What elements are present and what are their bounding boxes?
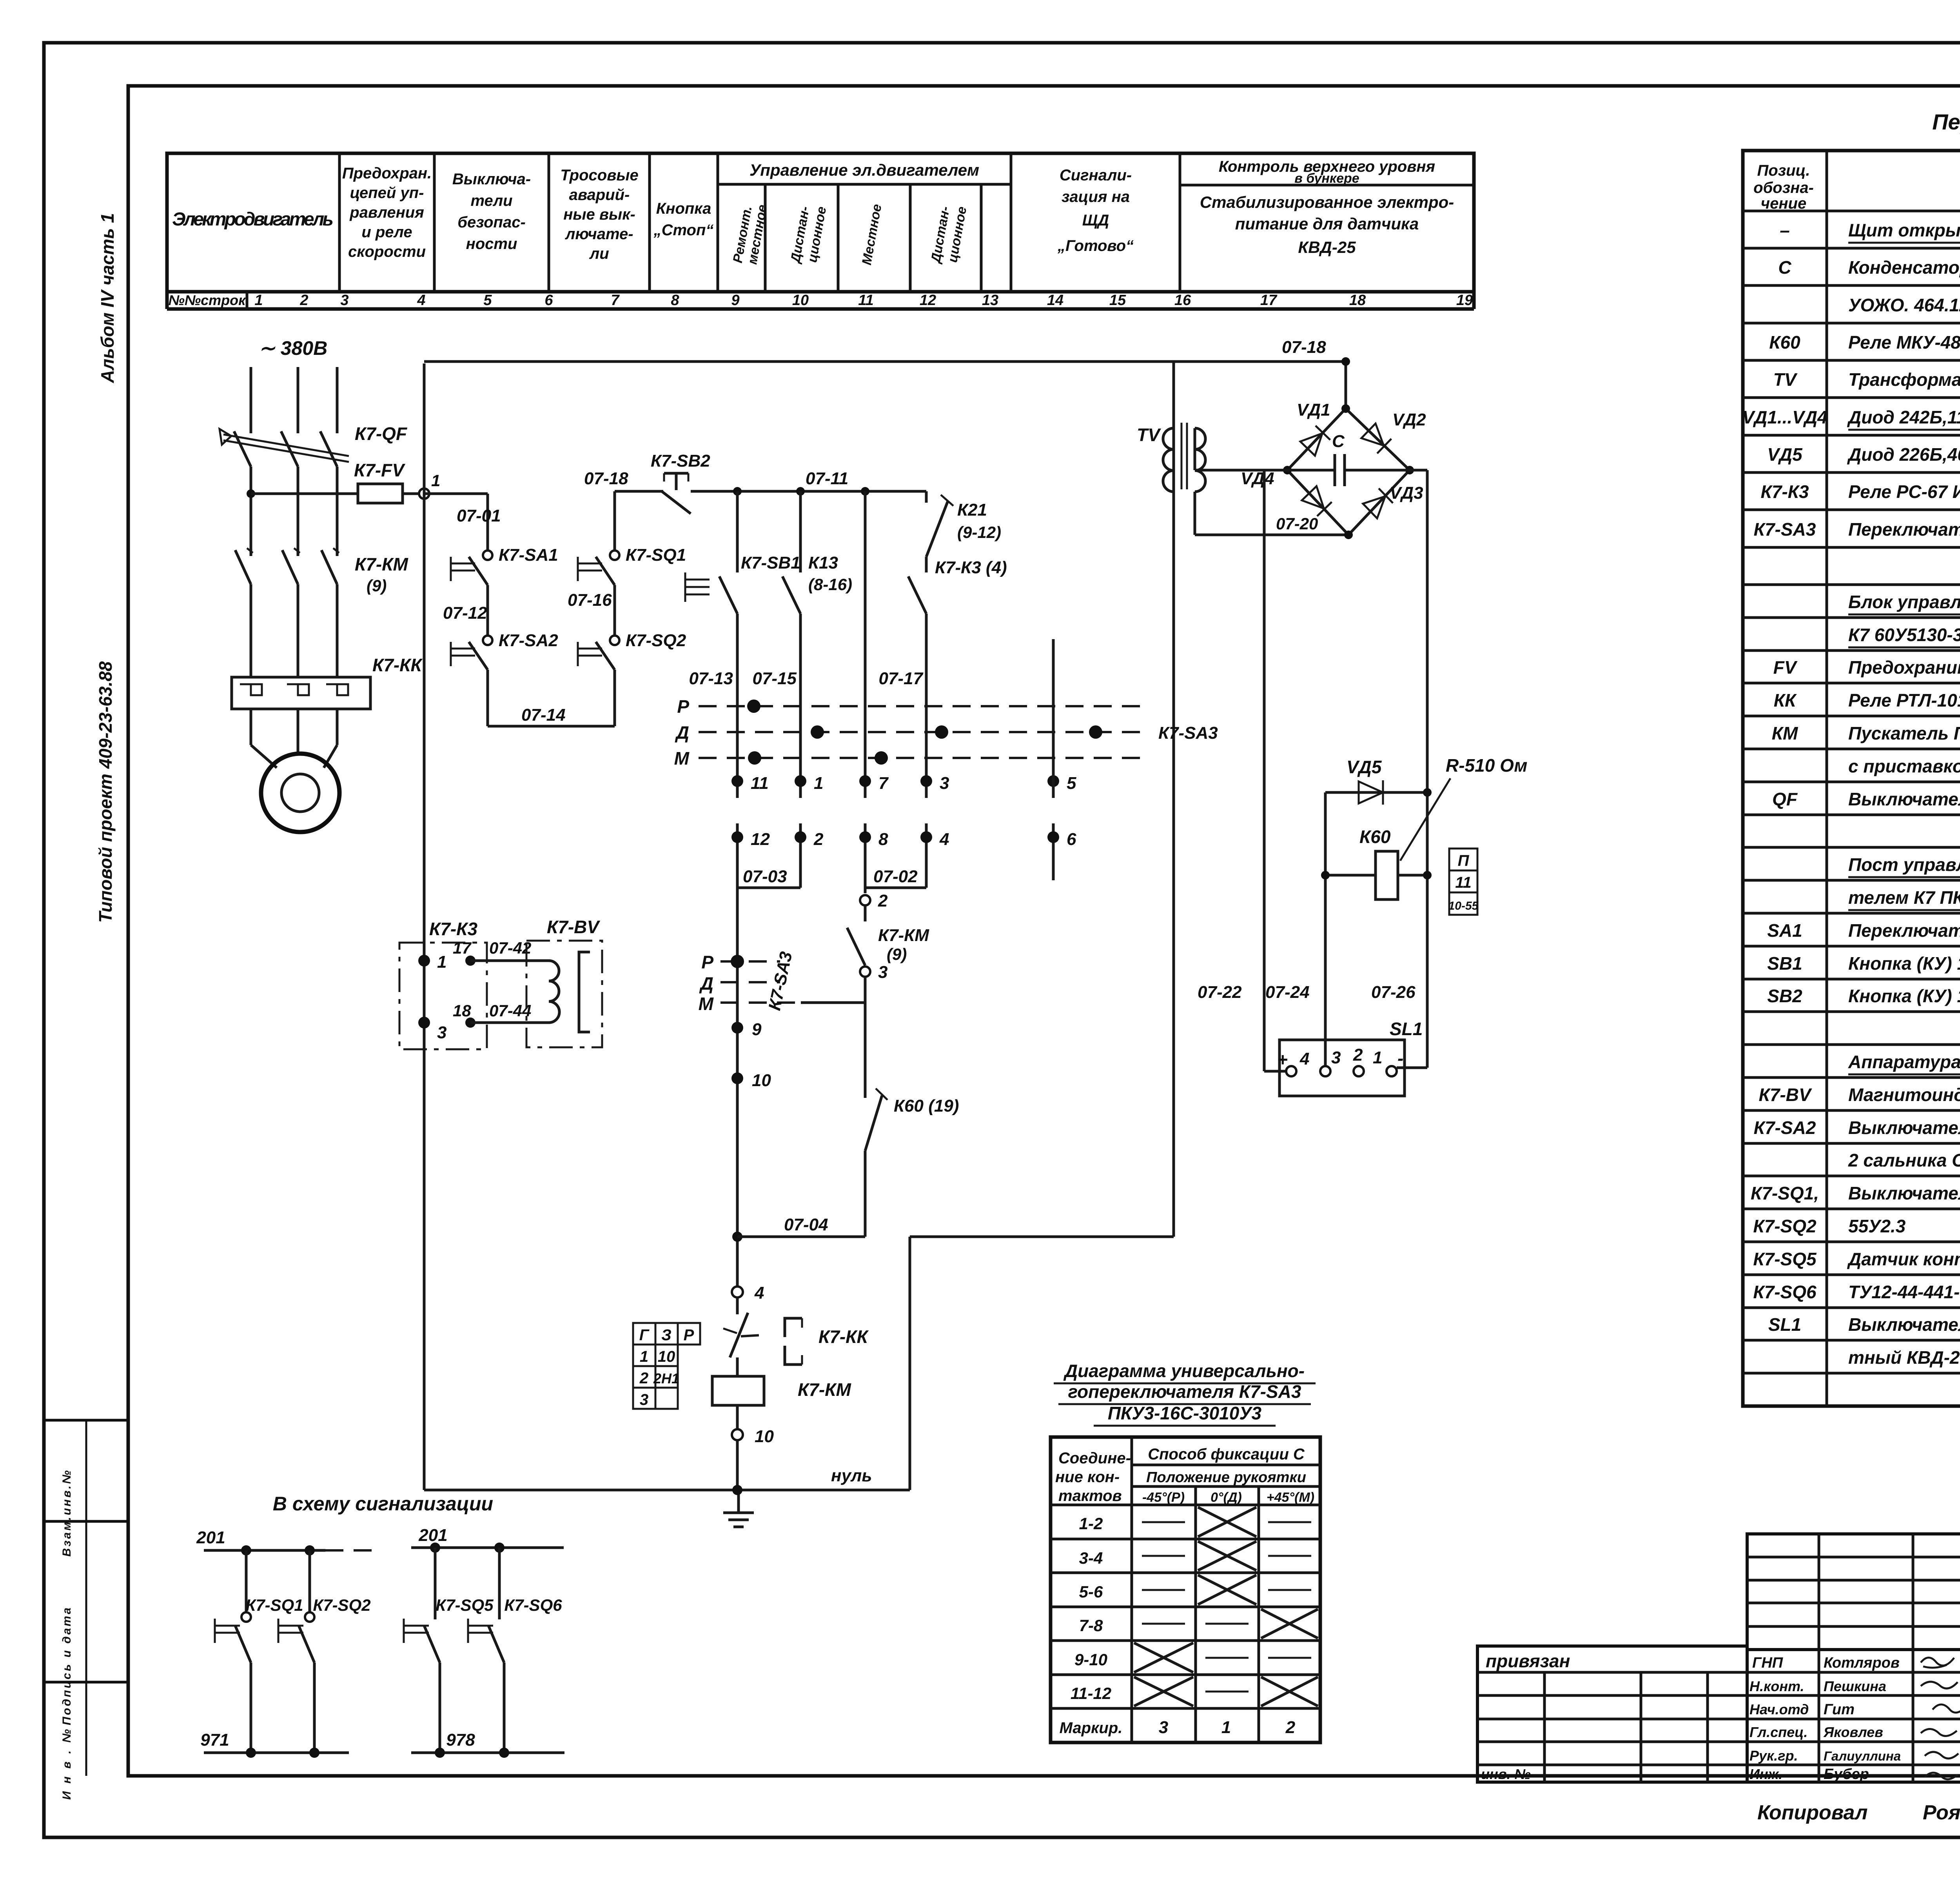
svg-text:201: 201	[418, 1526, 447, 1545]
svg-text:гопереключателя К7-SA3: гопереключателя К7-SA3	[1068, 1381, 1301, 1402]
circuit breaker K7-QF pole 3	[320, 431, 337, 467]
svg-text:Кнопка: Кнопка	[656, 200, 711, 217]
svg-text:Стабилизированное электро-: Стабилизированное электро-	[1200, 193, 1454, 211]
svg-text:07-01: 07-01	[457, 506, 501, 525]
bridge top lead	[1345, 362, 1347, 409]
svg-text:2: 2	[299, 292, 308, 309]
svg-text:К7-К3 (4): К7-К3 (4)	[935, 558, 1007, 577]
contact K21 (9-12)	[925, 491, 928, 503]
svg-text:В схему сигнализации: В схему сигнализации	[273, 1493, 493, 1515]
node 2 open	[860, 895, 870, 905]
svg-text:Диод 242Б,110В,10А ГОСТ14758-6: Диод 242Б,110В,10А ГОСТ14758-69	[1847, 407, 1960, 427]
vertical SB1 column	[736, 491, 739, 572]
svg-text:201: 201	[196, 1528, 225, 1547]
svg-text:07-24: 07-24	[1265, 983, 1310, 1002]
thermal contact K7-KK	[736, 1297, 739, 1314]
row 11-12 marks	[1134, 1677, 1193, 1706]
svg-text:Инв.№: Инв.№	[60, 1729, 73, 1800]
svg-text:07-18: 07-18	[1282, 338, 1326, 357]
svg-text:3: 3	[940, 774, 949, 793]
vertical plain column	[864, 491, 867, 798]
svg-text:Реле МКУ-48С РА4.500.232-24В,2: Реле МКУ-48С РА4.500.232-24В,2П,Rкат.510…	[1848, 332, 1960, 353]
svg-text:Кнопка (КУ) 1з+1р, черн. „пуск: Кнопка (КУ) 1з+1р, черн. „пуск“	[1848, 953, 1960, 974]
dashed М2	[720, 1001, 801, 1004]
wire SQ1 up to 07-18 line	[613, 491, 616, 551]
svg-text:-: -	[1397, 1048, 1403, 1068]
svg-text:15: 15	[1109, 292, 1126, 309]
contact K13 (8-16)	[782, 576, 800, 614]
node 3 open	[860, 967, 870, 977]
svg-text:безопас-: безопас-	[457, 214, 526, 231]
svg-text:07-22: 07-22	[1198, 983, 1242, 1002]
svg-text:К7-КМ: К7-КМ	[878, 926, 929, 945]
svg-text:К7-BV: К7-BV	[547, 917, 600, 937]
svg-text:2Н1: 2Н1	[653, 1370, 679, 1386]
right loop wire down	[1172, 362, 1175, 1237]
svg-text:К60: К60	[1769, 332, 1800, 353]
svg-text:VД1...VД4: VД1...VД4	[1742, 407, 1827, 427]
handwritten signatures (squiggles)	[1921, 1658, 1954, 1668]
svg-text:скорости: скорости	[348, 243, 426, 260]
svg-text:FV: FV	[1773, 657, 1798, 678]
header table top-left: outer box	[167, 153, 1474, 309]
svg-text:К60 (19): К60 (19)	[894, 1096, 959, 1116]
svg-text:инв. №: инв. №	[1481, 1766, 1531, 1782]
contact K7-KM (9)	[864, 906, 867, 921]
svg-text:ности: ности	[466, 235, 517, 253]
svg-text:11: 11	[751, 774, 769, 793]
svg-text:Выключатель пакетный ПВ3-10У25: Выключатель пакетный ПВ3-10У256Б	[1848, 1117, 1960, 1138]
top bus wire 07-18	[424, 360, 1346, 363]
svg-text:07-03: 07-03	[743, 867, 787, 886]
svg-text:ные вык-: ные вык-	[563, 206, 635, 223]
wire SQ2 to SQ1	[613, 585, 616, 636]
title block	[1477, 1534, 1960, 1827]
Г З Р marking table	[633, 1323, 700, 1345]
ground symbol	[737, 1490, 740, 1513]
svg-text:6: 6	[544, 292, 553, 309]
limit switch K7-SQ1	[610, 551, 619, 560]
svg-text:3: 3	[1159, 1718, 1168, 1737]
svg-text:Диаграмма универсально-: Диаграмма универсально-	[1063, 1361, 1305, 1381]
node 10	[731, 1072, 743, 1084]
svg-text:11: 11	[1455, 874, 1472, 891]
node 10 open	[732, 1429, 743, 1440]
vertical K7-K3 column	[925, 557, 928, 572]
limit switch K7-SQ2 to signal	[309, 1550, 311, 1612]
contactor K7-KM pole 3	[321, 550, 337, 584]
row 3-4 marks	[1142, 1555, 1185, 1557]
svg-text:1: 1	[640, 1348, 648, 1365]
svg-text:К7-КК: К7-КК	[818, 1326, 869, 1347]
wire 07-03	[737, 887, 800, 889]
dc rail with capacitor C	[1264, 469, 1335, 472]
svg-text:10: 10	[755, 1427, 774, 1446]
row 7-8 marks	[1142, 1623, 1185, 1625]
wire 07-11	[691, 490, 926, 493]
svg-text:телем К7 ПКУ15-19.141-54У2: телем К7 ПКУ15-19.141-54У2	[1848, 887, 1960, 908]
phase wire L1	[250, 367, 252, 433]
left dc drop wire	[1263, 470, 1266, 1071]
secondary top lead	[1194, 428, 1196, 470]
svg-text:Котляров: Котляров	[1824, 1655, 1900, 1671]
svg-text:7: 7	[611, 292, 620, 309]
svg-text:К7-К3: К7-К3	[429, 919, 477, 939]
svg-text:(9-12): (9-12)	[957, 523, 1001, 541]
svg-text:11: 11	[858, 292, 873, 309]
limit switch K7-SQ2	[610, 636, 619, 645]
svg-text:К7-SQ2: К7-SQ2	[1753, 1216, 1817, 1236]
svg-text:1: 1	[437, 952, 446, 972]
svg-text:3: 3	[340, 292, 348, 309]
svg-text:аварий-: аварий-	[569, 186, 630, 204]
svg-text:R-510 Ом: R-510 Ом	[1446, 755, 1527, 776]
loop jog wire	[910, 1236, 1174, 1238]
diode bridge edges	[1287, 409, 1346, 470]
svg-text:2: 2	[813, 830, 824, 849]
svg-text:зация на: зация на	[1062, 188, 1130, 205]
svg-text:УОЖО. 464.120ТУ: УОЖО. 464.120ТУ	[1848, 295, 1960, 315]
svg-text:9: 9	[752, 1020, 762, 1039]
svg-text:Реле РС-67 И~220В комплект дат: Реле РС-67 И~220В комплект датчик ДМ-2	[1848, 482, 1960, 502]
svg-text:1: 1	[814, 774, 823, 793]
K7-BV core bracket	[579, 952, 590, 1032]
svg-text:2: 2	[1353, 1045, 1363, 1065]
thermal relay K7-KK box	[232, 677, 370, 709]
svg-text:Кнопка (КУ) 1з+1р, красн. „сто: Кнопка (КУ) 1з+1р, красн. „стоп“	[1848, 986, 1960, 1006]
svg-text:ПКУ3-16С-3010У3: ПКУ3-16С-3010У3	[1108, 1403, 1262, 1423]
svg-text:7: 7	[878, 774, 889, 793]
diode VD2	[1361, 423, 1391, 453]
relay coil K60	[1324, 792, 1327, 1071]
svg-text:К7-SQ6: К7-SQ6	[504, 1596, 562, 1615]
svg-text:07-15: 07-15	[752, 669, 797, 688]
terminal 18 wire 07-44	[465, 1018, 475, 1028]
svg-text:К7-SQ6: К7-SQ6	[1753, 1282, 1817, 1302]
svg-text:07-42: 07-42	[489, 939, 531, 957]
svg-text:07-13: 07-13	[689, 669, 733, 688]
svg-text:Выключатель АЕ2036-10У3 Iр16А: Выключатель АЕ2036-10У3 Iр16А	[1848, 789, 1960, 809]
svg-text:17: 17	[453, 939, 472, 957]
node 9	[731, 1022, 743, 1034]
svg-text:Гит: Гит	[1824, 1701, 1855, 1718]
svg-text:З: З	[661, 1326, 671, 1344]
wire 07-04	[732, 1232, 742, 1242]
svg-text:Пешкина: Пешкина	[1824, 1678, 1886, 1694]
svg-text:VД3: VД3	[1390, 483, 1423, 503]
motor M	[261, 754, 339, 832]
svg-text:К7-SB2: К7-SB2	[651, 451, 710, 471]
limit switch K7-SQ6 to signal	[498, 1548, 501, 1619]
svg-text:питание для датчика: питание для датчика	[1235, 214, 1419, 233]
svg-text:5: 5	[483, 292, 492, 309]
phase wire L3	[336, 367, 339, 433]
svg-text:VД5: VД5	[1767, 444, 1803, 465]
svg-text:-45°(Р): -45°(Р)	[1142, 1490, 1185, 1505]
left margin stamp cells	[44, 1419, 128, 1422]
svg-text:7-8: 7-8	[1079, 1616, 1103, 1635]
svg-text:Сигнали-: Сигнали-	[1060, 167, 1132, 184]
svg-text:К13: К13	[808, 553, 838, 572]
svg-text:1-2: 1-2	[1079, 1514, 1103, 1533]
svg-text:С: С	[1332, 432, 1345, 451]
svg-text:с приставкой ПКЛ2004: с приставкой ПКЛ2004	[1848, 756, 1960, 776]
phase wire L2	[297, 367, 299, 433]
svg-text:Диод 226Б,400В, 0,3А ШБ3.362.: Диод 226Б,400В, 0,3А ШБ3.362.002ТУ-1	[1847, 444, 1960, 465]
svg-text:Положение рукоятки: Положение рукоятки	[1146, 1469, 1306, 1486]
svg-text:ГНП: ГНП	[1752, 1655, 1783, 1671]
terminal dots row 11 1 7 3 5	[731, 775, 743, 787]
diode VD1	[1300, 426, 1330, 456]
transformer TV secondary winding	[1195, 428, 1205, 492]
K7-KK heater 1	[240, 684, 262, 695]
svg-text:Взам.инв.№: Взам.инв.№	[60, 1470, 73, 1557]
svg-text:8: 8	[878, 830, 888, 849]
svg-text:4: 4	[754, 1283, 764, 1303]
wire SA1 to SA2	[486, 585, 489, 635]
svg-text:07-18: 07-18	[584, 469, 628, 488]
svg-text:4: 4	[1299, 1049, 1309, 1068]
wire node1 to SA1 column	[424, 492, 488, 495]
svg-text:07-20: 07-20	[1276, 514, 1318, 533]
svg-text:КМ: КМ	[1772, 723, 1798, 743]
svg-text:К7-SA2: К7-SA2	[499, 631, 558, 650]
svg-text:Предохран.: Предохран.	[342, 165, 432, 182]
spare column 5-6	[1052, 639, 1055, 798]
svg-text:Копировал: Копировал	[1757, 1801, 1867, 1824]
svg-text:SA1: SA1	[1767, 920, 1802, 941]
svg-text:К7-SQ5: К7-SQ5	[1753, 1249, 1817, 1269]
contact K7-K3(4)	[908, 576, 926, 614]
svg-text:в бункере: в бункере	[1294, 171, 1359, 186]
header column dividers	[338, 153, 341, 292]
svg-text:К21: К21	[957, 500, 987, 520]
svg-text:„Готово“: „Готово“	[1057, 237, 1134, 254]
svg-text:2: 2	[639, 1370, 648, 1387]
svg-text:Подпись и дата: Подпись и дата	[60, 1608, 73, 1725]
svg-text:привязан: привязан	[1486, 1651, 1570, 1671]
svg-text:0°(Д): 0°(Д)	[1210, 1490, 1242, 1505]
нуль bus wire	[424, 1489, 910, 1492]
right dc drop wire	[1426, 470, 1429, 1068]
svg-text:SB2: SB2	[1767, 986, 1802, 1006]
limit switch K7-SQ5 to signal	[434, 1548, 437, 1619]
wire 07-14	[486, 670, 489, 726]
svg-text:К7-SQ1,: К7-SQ1,	[1751, 1183, 1819, 1203]
svg-text:SL1: SL1	[1768, 1314, 1801, 1335]
svg-text:лючате-: лючате-	[564, 225, 633, 243]
svg-text:4: 4	[417, 292, 425, 309]
svg-text:971: 971	[200, 1730, 229, 1750]
svg-text:Инж.: Инж.	[1749, 1766, 1782, 1782]
fuse K7-FV	[358, 484, 403, 503]
svg-text:К7-SQ1: К7-SQ1	[245, 1596, 303, 1615]
svg-text:Р: Р	[684, 1326, 694, 1344]
dot on Р2	[731, 955, 744, 968]
svg-text:10: 10	[792, 292, 809, 309]
diode VD4	[1302, 486, 1332, 516]
svg-text:нуль: нуль	[831, 1466, 872, 1485]
svg-text:2: 2	[1285, 1718, 1296, 1737]
svg-text:Датчик контроля схода ленты КС: Датчик контроля схода ленты КСЛ-2	[1847, 1249, 1960, 1269]
svg-text:Яковлев: Яковлев	[1823, 1724, 1883, 1740]
svg-text:Управление эл.двигателем: Управление эл.двигателем	[750, 161, 979, 179]
svg-text:07-16: 07-16	[568, 591, 612, 610]
svg-text:К7-FV: К7-FV	[354, 460, 405, 480]
svg-text:+: +	[1277, 1049, 1288, 1070]
svg-text:Пост управления К7-ПУ электрод: Пост управления К7-ПУ электродвига-	[1848, 854, 1960, 875]
svg-text:19: 19	[1456, 292, 1473, 309]
K7-KK heater 2	[287, 684, 309, 695]
wire to stop button	[615, 490, 663, 493]
svg-text:цепей уп-: цепей уп-	[350, 184, 424, 202]
phase segments below QF	[250, 467, 252, 556]
svg-text:VД2: VД2	[1392, 410, 1426, 429]
svg-text:Выключатель конечный бесконтак: Выключатель конечный бесконтак-	[1848, 1314, 1960, 1335]
node 3	[418, 1017, 430, 1028]
svg-text:КК: КК	[1774, 690, 1797, 710]
svg-text:3: 3	[878, 963, 887, 982]
dashed Д2	[720, 981, 780, 983]
svg-text:обозна-: обозна-	[1753, 179, 1814, 196]
svg-text:07-14: 07-14	[521, 705, 566, 725]
svg-text:07-02: 07-02	[873, 867, 918, 886]
node 4 open	[732, 1286, 743, 1297]
svg-text:Рояк: Рояк	[1923, 1801, 1960, 1824]
svg-text:ли: ли	[589, 245, 609, 262]
svg-text:Магнитоиндуктивный датчик ДМ-2: Магнитоиндуктивный датчик ДМ-2	[1848, 1085, 1960, 1105]
svg-text:(9): (9)	[887, 945, 907, 963]
wire 07-02	[865, 887, 926, 889]
button K7-SB1	[719, 576, 737, 614]
svg-text:12: 12	[920, 292, 936, 309]
element list table: Перечень элементов	[1742, 109, 1960, 1406]
upper small revision grid	[1747, 1534, 1960, 1650]
sub dividers	[764, 184, 767, 292]
svg-text:2: 2	[878, 891, 888, 910]
svg-text:К7-КМ: К7-КМ	[798, 1379, 851, 1400]
contact K60 (19)	[865, 1096, 882, 1151]
svg-text:Галиуллина: Галиуллина	[1824, 1749, 1901, 1763]
svg-text:и реле: и реле	[361, 223, 412, 241]
svg-text:Д: Д	[675, 722, 689, 743]
svg-text:–: –	[1780, 220, 1790, 240]
svg-text:3: 3	[1331, 1048, 1341, 1067]
svg-text:3-4: 3-4	[1079, 1549, 1103, 1567]
node 1	[418, 955, 430, 967]
svg-text:SL1: SL1	[1390, 1019, 1423, 1039]
svg-text:13: 13	[982, 292, 998, 309]
K7-QF handle chevron	[220, 429, 231, 445]
svg-text:14: 14	[1047, 292, 1063, 309]
svg-text:Трансформатор ОСМ-0,4 И 220/5-: Трансформатор ОСМ-0,4 И 220/5-22-110/24	[1848, 369, 1960, 390]
svg-text:К7-К3: К7-К3	[1760, 482, 1809, 502]
svg-text:Нач.отд: Нач.отд	[1749, 1701, 1809, 1717]
svg-text:К7-BV: К7-BV	[1759, 1085, 1812, 1105]
K7-KK heater 3	[326, 684, 348, 695]
dashed line Р	[699, 705, 1149, 707]
diode VD5 branch	[1325, 791, 1427, 794]
middle chain vertical	[736, 888, 739, 1286]
Управление эл.двигателем group underline	[718, 183, 1011, 186]
svg-text:978: 978	[446, 1730, 475, 1750]
svg-text:5-6: 5-6	[1079, 1583, 1103, 1601]
secondary bottom lead 07-20	[1194, 492, 1196, 535]
svg-text:Тросовые: Тросовые	[560, 167, 639, 184]
svg-text:П: П	[1458, 852, 1470, 869]
svg-text:Бубер: Бубер	[1824, 1766, 1869, 1783]
svg-text:Предохранитель ППТ-10У3, 6А: Предохранитель ППТ-10У3, 6А	[1848, 657, 1960, 678]
limit switch K7-SQ1 to signal	[245, 1550, 248, 1612]
svg-text:9: 9	[731, 292, 739, 309]
svg-text:К7-SA3: К7-SA3	[1754, 519, 1816, 540]
svg-text:Гл.спец.: Гл.спец.	[1749, 1724, 1808, 1740]
left bus wire	[423, 363, 426, 1490]
svg-text:Маркир.: Маркир.	[1060, 1719, 1123, 1737]
row 9-10 marks	[1134, 1643, 1193, 1672]
relay block K7-K3 dashed box	[399, 943, 487, 1049]
svg-text:2 сальника ОСТ16.0526.001-77: 2 сальника ОСТ16.0526.001-77	[1848, 1150, 1960, 1170]
svg-text:чение: чение	[1761, 195, 1806, 212]
svg-text:К7-КК: К7-КК	[372, 655, 423, 675]
svg-text:тактов: тактов	[1058, 1487, 1122, 1505]
svg-text:07-04: 07-04	[784, 1215, 828, 1234]
terminal 17 wire 07-42	[465, 956, 475, 966]
svg-text:Соедине-: Соедине-	[1058, 1450, 1131, 1467]
svg-text:М: М	[699, 994, 714, 1014]
K7-BV coil	[549, 961, 559, 1023]
svg-text:(9): (9)	[367, 576, 387, 595]
svg-text:К7-SA1: К7-SA1	[499, 545, 558, 565]
coil K7-KM	[712, 1376, 764, 1405]
svg-text:Аппаратура по месту: Аппаратура по месту	[1848, 1052, 1960, 1072]
svg-text:К7-SB1: К7-SB1	[741, 553, 800, 572]
svg-text:К7-SQ2: К7-SQ2	[313, 1596, 370, 1615]
svg-text:16: 16	[1174, 292, 1191, 309]
svg-text:Способ фиксации С: Способ фиксации С	[1148, 1446, 1305, 1463]
svg-text:10-55: 10-55	[1448, 899, 1479, 912]
svg-text:ТУ12-44-441-75: ТУ12-44-441-75	[1848, 1282, 1960, 1302]
jog to М line	[864, 977, 867, 1003]
vertical K13 column	[799, 491, 802, 572]
svg-text:Электродвигатель: Электродвигатель	[172, 209, 334, 230]
row 1-2 marks	[1142, 1521, 1185, 1523]
svg-text:VД1: VД1	[1297, 400, 1330, 420]
stop button K7-SB2	[662, 491, 691, 514]
circuit breaker K7-QF pole 2	[281, 431, 298, 467]
svg-text:Г: Г	[639, 1326, 650, 1344]
transformer TV primary winding	[1163, 428, 1174, 492]
svg-text:Выключа-: Выключа-	[452, 171, 531, 188]
svg-text:„Стоп“: „Стоп“	[653, 222, 714, 239]
svg-text:Перечень элементов: Перечень элементов	[1932, 109, 1960, 134]
svg-text:1: 1	[1221, 1718, 1231, 1737]
svg-text:5: 5	[1067, 774, 1076, 793]
circuit breaker K7-QF pole 1	[234, 431, 251, 467]
svg-text:Д: Д	[699, 973, 713, 994]
svg-text:55У2.3: 55У2.3	[1848, 1216, 1906, 1236]
svg-text:8: 8	[671, 292, 679, 309]
switch K7-SA1	[483, 551, 492, 560]
phase segments below KM	[250, 584, 252, 677]
svg-text:07-44: 07-44	[489, 1001, 531, 1020]
capacitor C plates	[1334, 454, 1336, 486]
svg-text:ние кон-: ние кон-	[1055, 1468, 1120, 1486]
svg-text:Конденсатор К-50-20-50В-100мкф: Конденсатор К-50-20-50В-100мкф	[1848, 257, 1960, 278]
svg-text:Альбом IV часть 1: Альбом IV часть 1	[97, 213, 118, 383]
dashed line Д	[699, 731, 1149, 733]
K7-QF linkage bar	[223, 434, 349, 456]
